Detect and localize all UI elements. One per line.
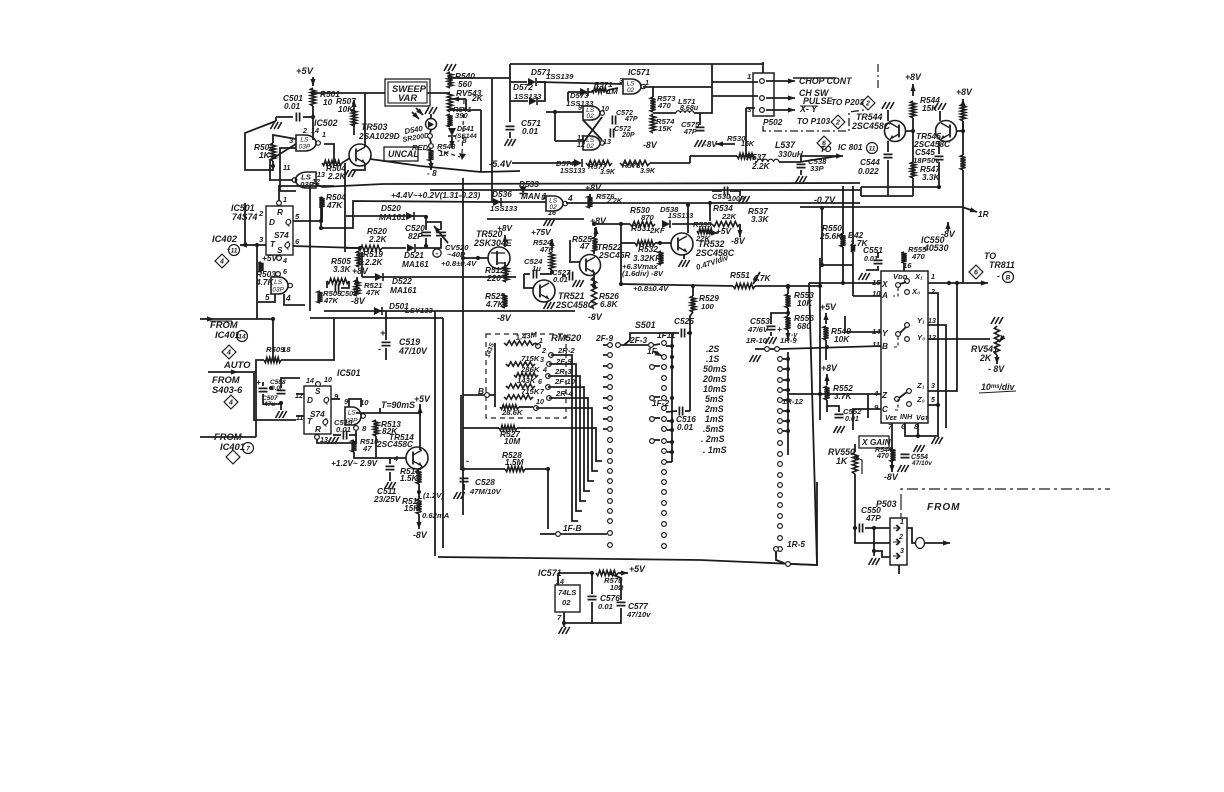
svg-text:Q̄: Q̄ (284, 240, 291, 250)
wire TR545 base (956, 121, 963, 131)
svg-text:0.01: 0.01 (864, 255, 878, 263)
resistor R531v (658, 251, 663, 265)
wire R545w dn (962, 170, 964, 207)
wire pin8 down (317, 435, 356, 443)
wire C530 l (712, 190, 722, 192)
svg-text:Y₀: Y₀ (917, 333, 925, 342)
wire gate c in2 (608, 88, 618, 90)
capacitor C554 (901, 454, 910, 457)
junction pin3 (255, 243, 259, 247)
contact on bus (786, 562, 791, 567)
svg-text:13: 13 (928, 317, 936, 325)
junction FROM a (271, 317, 275, 321)
diode D574 (574, 159, 582, 167)
resistor RM 715K a (506, 362, 535, 366)
junction R501 top rail (311, 91, 315, 95)
svg-text:+5V: +5V (414, 394, 431, 404)
wire 1F-B (540, 533, 555, 535)
arrow +8V c2 (589, 194, 591, 204)
resistor R510b (351, 440, 356, 452)
resistor R578 (620, 160, 650, 165)
svg-text:FROM: FROM (927, 502, 960, 513)
wire TR545 coll (939, 111, 941, 121)
inductor L571 (676, 111, 694, 113)
svg-text:4: 4 (567, 193, 573, 203)
capacitor C510 (343, 431, 346, 440)
contact col3 16 (778, 524, 783, 529)
ground C551 (859, 273, 863, 280)
wire fet drain to +8V (504, 235, 506, 247)
pin1 circle IC501 (277, 201, 282, 206)
junction x621 bot (619, 282, 623, 286)
nor gate IC571a (583, 106, 600, 120)
resistor R504b (319, 197, 324, 208)
wire P502 feed2 (712, 95, 758, 97)
wire bundle 4 (548, 387, 590, 491)
svg-text:10K: 10K (797, 298, 813, 308)
svg-text:S: S (315, 386, 321, 396)
wire D520 row (345, 215, 426, 217)
svg-text:1: 1 (645, 79, 649, 87)
stub col1 8 (603, 428, 607, 430)
resistor RM 715K b (504, 395, 533, 399)
wire P503 g3 (874, 551, 890, 557)
ground C554 b (898, 465, 902, 472)
contact X1 sw (905, 279, 910, 284)
wire TR503 collector (313, 93, 365, 147)
wire pinZ stub (867, 394, 869, 418)
wire pin14 up (557, 573, 559, 585)
junction -0.7 row (820, 206, 824, 210)
capacitor C524 (533, 270, 536, 279)
wire C510 right (349, 431, 356, 435)
svg-text:-8V: -8V (413, 530, 428, 540)
wire vert x690 (689, 333, 691, 411)
wire L571 out (694, 87, 712, 113)
wire base row left (621, 242, 635, 244)
wire Z1 out (928, 283, 957, 391)
contact col2 3 (662, 376, 667, 381)
wire R547 dn (912, 178, 914, 196)
svg-text:RM520: RM520 (551, 332, 582, 343)
svg-text:47K: 47K (365, 288, 382, 297)
svg-text:D541: D541 (457, 125, 474, 133)
svg-text:RED: RED (412, 143, 429, 152)
nor gate IC571c (623, 79, 641, 94)
resistor R530 (630, 221, 655, 226)
svg-text:4: 4 (219, 259, 224, 266)
capacitor C553 (767, 326, 776, 329)
contact col3 3 (778, 388, 783, 393)
junction pin7 (562, 621, 566, 625)
wire pin10A (853, 295, 881, 297)
wire top rail y64 (510, 63, 763, 65)
diode D501 (374, 307, 382, 315)
wire Y1 out (928, 325, 946, 428)
arrow +8V d2 (912, 84, 914, 96)
wire row202 (487, 201, 546, 203)
ground C552 (834, 426, 838, 433)
wire C552 up (827, 406, 839, 412)
contact col1 1 (608, 353, 613, 358)
svg-text:+4.4V~+0.2V(1.31-0.23): +4.4V~+0.2V(1.31-0.23) (391, 190, 480, 200)
wire R547 up (912, 131, 914, 162)
wiper RV543 (452, 98, 466, 100)
svg-text:2.2K: 2.2K (327, 171, 347, 181)
junction RV550 (853, 526, 857, 530)
wire y82 to gate (537, 82, 622, 84)
wire d573 row (568, 91, 592, 93)
contact col2 11 (662, 460, 667, 465)
svg-text:470: 470 (876, 452, 889, 460)
wire rm left bus (494, 343, 496, 407)
contact col3 15 (778, 514, 783, 519)
junction qbar row (358, 246, 362, 250)
svg-text:P502: P502 (763, 117, 783, 127)
wire pin12 (296, 393, 304, 395)
wire R504a to base (342, 158, 350, 163)
wire pin14Y (845, 331, 881, 333)
wire R510b dn (354, 452, 376, 458)
pinS circle (316, 382, 321, 387)
wire diode out (537, 82, 545, 101)
contact Y1 sw (905, 323, 910, 328)
wire TR532 emit (683, 255, 685, 259)
diode D522 (375, 273, 383, 281)
contact col3 0 (778, 357, 783, 362)
svg-text:1mS: 1mS (705, 414, 724, 424)
svg-text:100: 100 (701, 302, 715, 311)
resistor RM 28.6K (500, 405, 519, 409)
arrow +75V (551, 239, 553, 250)
capacitor C573 (610, 129, 613, 138)
wire row218b (578, 202, 860, 204)
arrow 047 (753, 272, 760, 284)
arrow +5V c (419, 406, 421, 416)
contact col1 14 (608, 489, 613, 494)
arrow +8V a (356, 277, 358, 290)
wire C550 gnd (873, 528, 875, 556)
svg-text:3.9K: 3.9K (600, 168, 616, 176)
svg-text:1SS133: 1SS133 (668, 212, 693, 220)
svg-text:11: 11 (869, 146, 876, 153)
capacitor C551 (874, 260, 883, 263)
svg-text:TO P103: TO P103 (797, 116, 830, 126)
svg-text:IC402: IC402 (212, 233, 238, 244)
capacitor C538 (797, 164, 806, 167)
wire R552 dn (826, 400, 828, 412)
wire x273 down (272, 319, 274, 360)
stub col1 6 (603, 407, 607, 409)
junction pin6 (916, 434, 920, 438)
wire C516 l (666, 411, 677, 412)
wire vert x463 (462, 178, 464, 515)
bus bottom long (438, 482, 817, 565)
svg-text:3: 3 (931, 382, 935, 390)
junction TR545 base (961, 129, 965, 133)
contact P502 c (760, 108, 765, 113)
wire R525 top (594, 228, 596, 237)
wire vert x820b (819, 258, 821, 420)
wire R528 l (463, 468, 505, 470)
svg-text:2.2K: 2.2K (751, 161, 771, 171)
ground C508 (276, 411, 280, 418)
box UNCAL (384, 147, 418, 161)
wire gate d out (566, 202, 578, 204)
stub col1 1 (603, 354, 607, 356)
stub col3 2 (783, 379, 788, 381)
contact col3 12 (778, 483, 783, 488)
svg-text:- 8: - 8 (427, 168, 437, 178)
wiper RV541 arrow (999, 336, 1004, 342)
diamond 6 b (969, 265, 983, 279)
svg-text:3.9K: 3.9K (640, 167, 656, 175)
capacitor C544 (884, 154, 893, 157)
svg-text:0.01: 0.01 (522, 126, 539, 136)
resistor R506 (317, 291, 322, 303)
contact 2F-9 top (616, 343, 621, 348)
wire tr522 emit dn (593, 274, 595, 286)
wire R502 bottom (245, 121, 276, 170)
svg-text:+8V: +8V (905, 72, 922, 82)
junction col3 3 (786, 388, 790, 392)
wire TR503 emitter (352, 163, 365, 170)
switch lever Y (900, 327, 906, 333)
svg-text:2mS: 2mS (704, 404, 724, 414)
svg-text:Q: Q (285, 217, 292, 227)
junction Z0 (936, 403, 940, 407)
arrow sym p503 3 (893, 553, 900, 559)
contact Z1 sw (907, 389, 912, 394)
capacitor C509 (277, 390, 286, 393)
wire +5v row (558, 572, 594, 574)
ground C538 (796, 176, 800, 183)
chassis TR545 (934, 103, 938, 110)
wire rail c (356, 412, 420, 414)
svg-text:D: D (307, 395, 313, 405)
arrow ch sw (766, 97, 795, 99)
contact col2 18 (662, 533, 667, 538)
wire R501 to node (312, 106, 314, 140)
wire P503 mid (854, 542, 890, 544)
wire fet gate (463, 257, 489, 259)
svg-text:40530: 40530 (923, 243, 949, 253)
svg-text:X: X (881, 279, 888, 289)
nand gate IC502c (271, 277, 288, 294)
junction row187 (937, 185, 941, 189)
transistor TR522 (580, 255, 601, 276)
wire L537 out (779, 156, 838, 162)
wire main node b (755, 285, 820, 287)
svg-text:8: 8 (362, 424, 367, 433)
diode D573 (580, 88, 588, 96)
wire y93 seg (365, 92, 385, 94)
wire C509 up (281, 378, 300, 388)
resistor R501 (310, 88, 315, 106)
contact 1F-B (556, 532, 561, 537)
svg-text:-: - (466, 455, 469, 466)
svg-text:0.01: 0.01 (845, 415, 859, 423)
junction TR532 coll (686, 203, 690, 207)
pin8 circle (354, 426, 359, 431)
wire D540 diag (430, 139, 431, 143)
svg-text:3.3K: 3.3K (751, 214, 770, 224)
wire cross couple 1 (270, 144, 296, 160)
junction col2 r1 (670, 419, 674, 423)
stub col3 0 (783, 358, 788, 360)
transistor TR521 (533, 280, 555, 302)
wire vert x435 (434, 311, 436, 556)
wire R543 down (430, 161, 432, 170)
contact col3 9 (778, 452, 783, 457)
contact 1R-5 (774, 547, 779, 552)
capacitor C571 (506, 126, 515, 129)
wire C527 (562, 275, 566, 277)
junction col2 t4 (670, 396, 674, 400)
svg-text:23/25V: 23/25V (373, 494, 402, 504)
stub 2b2 (654, 396, 660, 398)
svg-text:4: 4 (228, 400, 233, 407)
transistor TR545 (936, 121, 957, 142)
junction Z1 top (955, 281, 959, 285)
wire bundle 5 (549, 398, 594, 481)
resistor R571 (592, 87, 608, 92)
contact col3 5 (778, 409, 783, 414)
contact P502 a (760, 79, 765, 84)
resistor RM 1.43M (504, 341, 535, 345)
ground TR503 emitter (345, 170, 349, 177)
ground C528 a (454, 492, 458, 499)
dashdot vert top (877, 64, 879, 90)
wire C551 dn (866, 266, 878, 270)
capacitor C577 (617, 602, 626, 605)
svg-text:286K: 286K (520, 365, 541, 374)
junction R551 right (786, 285, 790, 289)
svg-text:+8V: +8V (352, 266, 369, 276)
svg-text:2SK304E: 2SK304E (473, 238, 513, 248)
wire pin8 dn (918, 423, 937, 436)
wire vert x710 (709, 203, 711, 221)
resistor RM 286K (514, 373, 538, 377)
wire C550 l (853, 527, 857, 529)
svg-text:220: 220 (486, 273, 501, 283)
junction R514 bot (417, 490, 421, 494)
resistor R530b (737, 153, 755, 158)
svg-text:47P: 47P (683, 128, 697, 136)
svg-text:IC571: IC571 (628, 67, 651, 77)
contact col3 10 (778, 462, 783, 467)
svg-text:0.01: 0.01 (284, 101, 301, 111)
dashdot P503 (900, 505, 902, 518)
wire right col down (962, 207, 964, 283)
svg-text:14: 14 (238, 334, 246, 341)
wire R529 dn (692, 286, 694, 296)
junction col2 t2 (670, 355, 674, 359)
circ 11 b (867, 143, 878, 154)
wire C520 branch b (425, 238, 427, 248)
capacitor C528 (460, 478, 469, 481)
wire C538 dn (800, 170, 802, 175)
svg-text:R: R (277, 207, 283, 217)
wire row183 (322, 183, 860, 187)
overline FROM a (210, 320, 232, 322)
svg-text:.2S: .2S (706, 344, 719, 354)
nand gate IC502b (296, 172, 317, 188)
contact col3 8 (778, 441, 783, 446)
diode D536 (493, 198, 501, 206)
diode D520 (406, 212, 414, 220)
ground C511 (385, 482, 389, 489)
resistor R573 (650, 97, 655, 112)
svg-text:- 8V: - 8V (988, 364, 1005, 374)
wire P502 top (762, 62, 764, 73)
wire vert x362 (361, 252, 363, 277)
svg-text:5: 5 (295, 212, 300, 221)
wire 1R10 link (770, 348, 774, 350)
wire TR514 coll (419, 404, 421, 450)
wire LED top (430, 114, 432, 119)
capacitor C552 (835, 414, 844, 417)
contact col3 14 (778, 503, 783, 508)
diode D521 (407, 244, 415, 252)
wire R553 col (787, 308, 789, 316)
wire row196 (861, 195, 913, 197)
wire cross couple 3 (280, 148, 296, 191)
wire C511 up (389, 458, 391, 464)
resistor R544a (910, 101, 915, 118)
svg-text:-8V: -8V (588, 312, 603, 322)
wire pin6 dn (905, 423, 918, 436)
svg-text:TO P203: TO P203 (831, 97, 864, 107)
junction hook (319, 226, 323, 230)
svg-text:MA161: MA161 (390, 285, 417, 295)
junction fet gate (476, 256, 480, 260)
wire vert x481 (480, 110, 482, 172)
svg-text:+5V: +5V (262, 253, 278, 263)
svg-text:1F-B: 1F-B (563, 523, 581, 533)
dashdot corner (901, 489, 1110, 505)
resistor R523 (502, 294, 507, 308)
svg-text:11: 11 (872, 340, 880, 349)
potentiometer RV541 (994, 326, 999, 355)
svg-text:X₀: X₀ (911, 287, 920, 296)
resistor R570 (596, 570, 618, 575)
resistor R552 (824, 386, 829, 400)
FET TR520 (488, 247, 510, 269)
junction col2 r2 (670, 428, 674, 432)
capacitor C545 (935, 156, 944, 159)
arrow -8V h (947, 222, 949, 231)
wire row162 (755, 161, 757, 163)
svg-text:2SC458C: 2SC458C (555, 300, 595, 310)
wire R528 r (525, 468, 548, 470)
stub col3 5 (783, 410, 788, 412)
contact col2 12 (662, 470, 667, 475)
svg-text:10M: 10M (504, 436, 521, 446)
contact B (485, 393, 490, 398)
capacitor C520 (421, 232, 431, 235)
wire TR544 base (905, 118, 913, 131)
svg-text:6: 6 (295, 237, 300, 246)
svg-text:3: 3 (259, 235, 264, 244)
ground P503 (869, 558, 873, 565)
svg-text:143K: 143K (517, 376, 537, 385)
wire C516 r (685, 410, 690, 412)
wire FROM a (214, 318, 273, 320)
wire rm bottom (519, 406, 533, 408)
IC550 box (881, 271, 928, 423)
svg-text:6.8K: 6.8K (600, 299, 619, 309)
